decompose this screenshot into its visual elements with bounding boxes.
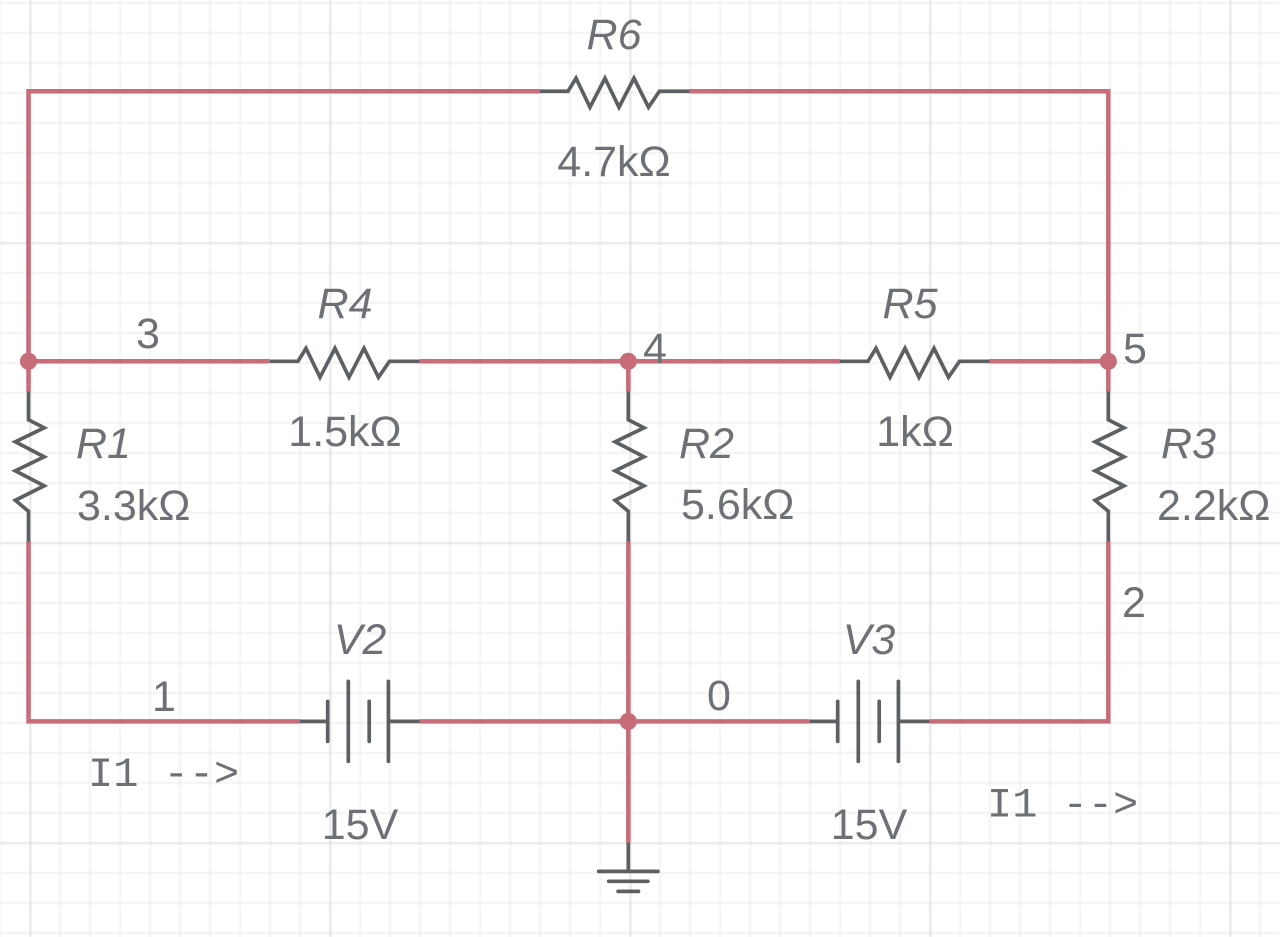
battery V2 — [300, 681, 420, 761]
svg-text:0: 0 — [707, 672, 731, 720]
svg-text:2: 2 — [1122, 579, 1146, 627]
svg-text:R5: R5 — [883, 280, 939, 328]
wire R2 bottom to node 0 — [626, 542, 631, 722]
svg-text:15V: 15V — [831, 801, 908, 849]
resistor R5 body — [840, 348, 990, 377]
svg-text:15V: 15V — [322, 801, 399, 849]
wire top-right L: R6 right to top-right corner down to node 5 — [690, 91, 1109, 391]
svg-text:4: 4 — [643, 325, 667, 373]
wire V2 to V3 through node 0 — [420, 719, 810, 724]
ground symbol — [599, 843, 658, 892]
svg-text:R3: R3 — [1161, 420, 1216, 468]
svg-text:1.5kΩ: 1.5kΩ — [288, 408, 401, 456]
svg-text:V3: V3 — [843, 616, 896, 664]
svg-text:V2: V2 — [334, 616, 387, 664]
wire bottom-left L: R1 bottom down and right to V2 — [29, 542, 300, 722]
svg-text:2.2kΩ: 2.2kΩ — [1157, 482, 1270, 530]
resistor R6 body — [540, 78, 690, 107]
svg-text:R6: R6 — [587, 11, 642, 59]
node junction dot 0 — [620, 713, 637, 730]
svg-text:R4: R4 — [318, 280, 373, 328]
svg-text:I1 -->: I1 --> — [987, 782, 1138, 830]
battery V3 — [810, 681, 930, 761]
wire node 4 down to R2 — [626, 361, 631, 391]
resistor R4 body — [270, 348, 420, 377]
svg-text:4.7kΩ: 4.7kΩ — [557, 138, 670, 186]
resistor R3 body — [1095, 392, 1124, 542]
svg-text:I1 -->: I1 --> — [88, 751, 239, 799]
svg-text:3: 3 — [136, 310, 160, 358]
svg-text:3.3kΩ: 3.3kΩ — [77, 482, 190, 530]
wire R4 to node 4 — [420, 359, 629, 364]
svg-text:R2: R2 — [679, 420, 734, 468]
wire node 0 down to ground — [626, 721, 631, 842]
svg-text:1: 1 — [152, 673, 176, 721]
wire node 4 to R5 — [628, 359, 839, 364]
node junction dot 5 — [1100, 353, 1117, 370]
svg-text:5.6kΩ: 5.6kΩ — [681, 481, 794, 529]
node junction dot 3 — [20, 353, 37, 370]
svg-text:5: 5 — [1123, 325, 1147, 373]
svg-text:R1: R1 — [76, 420, 131, 468]
resistor R2 body — [615, 392, 644, 542]
svg-text:1kΩ: 1kΩ — [876, 408, 954, 456]
resistor R1 body — [15, 392, 44, 542]
wire R5 to node 5 — [990, 359, 1109, 364]
wire bottom-right L: R3 bottom down to corner, left to V3 — [930, 542, 1109, 722]
wire top-left L: node 3 up to top rail, right to R6 — [29, 91, 540, 391]
node junction dot 4 — [620, 353, 637, 370]
wire node 3 to R4 — [29, 359, 270, 364]
